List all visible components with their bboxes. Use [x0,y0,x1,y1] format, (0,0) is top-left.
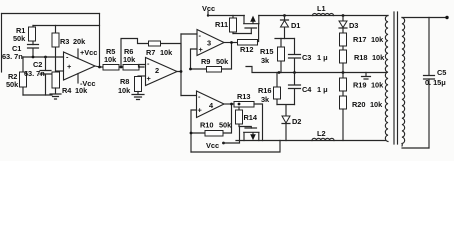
svg-text:3k: 3k [261,56,270,65]
+Vcc stub U1 [77,49,79,59]
wire second rail R1/R3 tops to U1 output [33,25,100,27]
resistor R17 [340,33,347,46]
svg-text:C2: C2 [33,60,42,69]
diode D2 [282,116,290,123]
wire R19-R20 [342,91,344,96]
svg-text:2: 2 [155,66,159,75]
svg-text:R12: R12 [240,45,253,54]
wire filter top bar [275,38,295,40]
svg-text:63. 7n: 63. 7n [24,69,45,78]
ground on mid rail [362,73,371,80]
wire mid rail [246,67,386,73]
wire to U4 inverting input [181,95,197,97]
svg-text:1 μ: 1 μ [317,53,328,62]
wire secondary top lead [402,17,447,19]
transformer T1 core [394,12,398,144]
svg-text:+: + [67,62,72,71]
svg-text:3: 3 [207,39,211,48]
svg-text:R20: R20 [352,100,365,109]
wire U4 noninverting input [191,110,197,152]
wire to U3 inverting input [181,33,197,35]
svg-text:0. 15μ: 0. 15μ [425,78,446,87]
node U2 output rail [177,34,181,96]
svg-text:D3: D3 [349,21,358,30]
transformer T1 primary winding [385,16,388,142]
svg-text:-: - [147,59,150,68]
svg-text:Vcc: Vcc [206,141,219,150]
resistor R5 [103,65,119,71]
wire Q2 gate line [240,127,252,129]
svg-text:L1: L1 [317,4,326,13]
svg-text:R7: R7 [146,48,155,57]
svg-text:R16: R16 [258,86,271,95]
inductor L2 [312,138,334,140]
wire bottom rail [236,140,386,142]
svg-text:+: + [147,74,152,83]
wire R13 to output rail [254,104,263,141]
wire R12 to Q1 drain [258,24,259,42]
svg-text:R19: R19 [353,81,366,90]
resistor R9 [191,43,232,70]
svg-text:-: - [199,31,202,40]
svg-text:+: + [198,106,203,115]
svg-text:L2: L2 [317,129,326,138]
resistor R12 [238,40,258,46]
svg-text:R15: R15 [260,47,273,56]
ground below R8 [132,92,144,100]
svg-text:R8: R8 [120,77,129,86]
capacitor C3 [289,39,301,73]
svg-text:10k: 10k [104,55,117,64]
svg-text:R10: R10 [200,121,213,130]
svg-text:R11: R11 [215,20,228,29]
wire jog into U2 inverting input [139,65,146,68]
capacitor C2 [40,57,51,95]
resistor R7 feedback [121,39,181,72]
svg-text:10k: 10k [118,86,131,95]
wire R17-R18 [342,46,344,50]
svg-text:50k: 50k [219,121,232,130]
node output terminal [445,16,448,19]
svg-text:R13: R13 [237,92,250,101]
svg-text:+: + [199,45,204,54]
svg-text:1 μ: 1 μ [317,85,328,94]
wire filter bottom bar [277,105,295,117]
resistor R13 [234,102,254,108]
op-amp U2 [146,58,178,86]
svg-text:20k: 20k [73,37,86,46]
wire U4 output [224,103,234,105]
resistor R11 [232,16,234,34]
op-amp U1 [64,52,96,80]
svg-text:R3: R3 [60,37,69,46]
resistor R3 [55,26,57,72]
resistor R14 [238,107,240,127]
resistor R2 [22,57,24,95]
wire Vcc bottom stub [224,127,240,144]
op-amp U4 [197,91,225,118]
wire bottom rail R2/C2 [23,94,52,96]
wire U3 noninverting input [191,49,198,69]
wire R20 to bottom rail [342,109,344,141]
wire left border input line [1,14,3,73]
capacitor C4 [289,73,301,105]
svg-text:R14: R14 [244,113,258,122]
svg-text:10k: 10k [372,53,385,62]
resistor R8 [135,77,142,92]
wire Q1 gate line [233,33,251,35]
resistor R6 [123,65,139,71]
svg-text:D1: D1 [291,21,300,30]
resistor R1 [32,26,34,45]
svg-text:-Vcc: -Vcc [80,79,95,88]
svg-text:10k: 10k [160,48,173,57]
resistor R20 [340,96,347,109]
wire U1 output vertical [99,14,101,68]
capacitor C1 [28,45,39,58]
wire R18 to mid rail [342,63,344,73]
wire top supply rail (gap at Q1) [208,15,388,17]
svg-text:50k: 50k [13,34,26,43]
svg-text:R17: R17 [353,35,366,44]
wire top feedback rail from output of U1 [2,13,100,15]
node A inverting rail of U1 [23,56,64,58]
svg-text:10k: 10k [370,100,383,109]
svg-text:C4: C4 [302,85,312,94]
capacitor C5 load [424,18,435,80]
wire bottom feedback loop [191,141,280,153]
svg-text:R4: R4 [62,86,72,95]
svg-text:50k: 50k [6,80,19,89]
transistor Q1 MOSFET [244,16,259,34]
op-amp U3 [197,30,224,56]
node U1 output [95,66,144,67]
resistor R10 [191,104,232,133]
wire U2 noninverting stub [138,75,146,77]
svg-text:R9: R9 [201,57,210,66]
svg-text:10k: 10k [123,55,136,64]
transformer T1 secondary winding [402,18,405,147]
svg-text:63. 7n: 63. 7n [2,52,23,61]
resistor R4 [52,72,60,88]
ground below R4 [50,88,61,99]
resistor R16 [276,73,278,105]
wire U1 noninverting input stub [56,70,64,72]
svg-text:10k: 10k [371,35,384,44]
svg-text:10k: 10k [371,81,384,90]
svg-text:4: 4 [209,101,214,110]
wire U3 output [224,42,238,44]
transistor Q2 MOSFET [244,128,259,141]
diode D1 [283,14,286,17]
resistor R19 [342,73,344,79]
inductor L1 [313,13,334,15]
resistor R18 [340,50,347,63]
svg-text:D2: D2 [292,117,301,126]
wire secondary bottom lead [402,147,429,149]
svg-text:R18: R18 [354,53,367,62]
resistor R15 [280,39,282,73]
wire Vcc stub [207,12,209,16]
svg-text:C5: C5 [437,68,446,77]
svg-text:50k: 50k [216,57,229,66]
svg-text:3k: 3k [261,95,270,104]
-Vcc stub U1 [77,74,79,84]
svg-text:+Vcc: +Vcc [80,48,97,57]
svg-text:C3: C3 [302,53,311,62]
diode D3 [342,14,345,17]
